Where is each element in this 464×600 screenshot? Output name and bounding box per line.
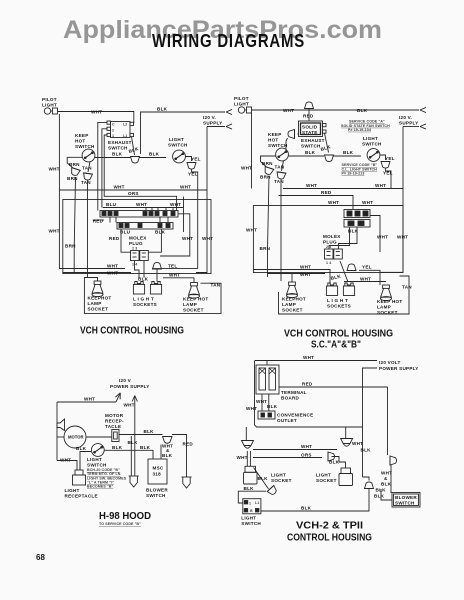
svg-text:HOT: HOT <box>268 138 278 143</box>
wire WHT double left <box>253 270 330 284</box>
svg-text:TERMINAL: TERMINAL <box>281 390 307 395</box>
svg-text:WHT: WHT <box>352 441 363 446</box>
svg-text:LIGHT: LIGHT <box>316 473 331 478</box>
svg-text:BLK: BLK <box>76 446 87 451</box>
svg-text:1: 1 <box>249 502 251 506</box>
svg-text:TAN: TAN <box>275 165 285 170</box>
note text block <box>87 468 127 489</box>
svg-text:WHT: WHT <box>202 236 213 241</box>
svg-text:POWER SUPPLY: POWER SUPPLY <box>110 384 150 389</box>
wire cup to socket2 <box>332 457 346 469</box>
svg-text:HOT: HOT <box>75 139 85 144</box>
svg-text:RED: RED <box>302 382 313 387</box>
wire keephot to cup <box>289 155 325 157</box>
svg-text:TEL: TEL <box>168 263 177 268</box>
horn connector left <box>57 419 65 431</box>
svg-text:BLK: BLK <box>305 150 316 155</box>
svg-text:MOTOR: MOTOR <box>105 413 124 418</box>
svg-text:SUPPLY: SUPPLY <box>399 121 418 126</box>
svg-text:BRN: BRN <box>67 176 78 181</box>
wire BLK cup to switch <box>238 491 266 503</box>
terminal block TB3 <box>344 210 370 228</box>
wire cup down to WHT wire <box>386 169 392 189</box>
svg-text:OUTLET: OUTLET <box>277 418 297 423</box>
svg-text:BLK: BLK <box>381 482 392 487</box>
exhaust switch S2 <box>107 121 134 138</box>
pilot light PL2 <box>238 107 251 113</box>
wire twisted pair to left blower socket <box>128 436 139 476</box>
svg-text:YEL: YEL <box>385 156 395 161</box>
wire left vertical to lamp bus <box>255 361 363 427</box>
wire cup to light switch <box>140 157 167 159</box>
wire BRN vertical <box>74 177 75 272</box>
wire bar1 right drop <box>160 214 190 256</box>
svg-text:WHT: WHT <box>114 185 125 190</box>
terminal strip TB2 <box>117 223 173 230</box>
svg-text:MSC: MSC <box>153 466 164 471</box>
svg-text:WHT: WHT <box>375 183 386 188</box>
svg-text:BLU: BLU <box>120 230 131 235</box>
svg-text:PLUG: PLUG <box>323 240 337 245</box>
svg-text:WHT: WHT <box>306 183 317 188</box>
wire socket right feed <box>193 278 195 283</box>
wire supply arrow right <box>134 397 136 437</box>
wire solid state to cup below <box>325 133 329 152</box>
enclosure bottom TR <box>279 276 410 314</box>
svg-text:WHT: WHT <box>237 455 248 460</box>
wire WHT double left <box>63 268 125 270</box>
svg-text:BLK: BLK <box>162 453 173 458</box>
svg-text:LIGHT: LIGHT <box>65 488 80 493</box>
wire molex to block <box>329 227 350 249</box>
svg-text:PILOT: PILOT <box>42 97 57 102</box>
svg-text:TO SERVICE CODE "B": TO SERVICE CODE "B" <box>99 522 141 526</box>
wire board top to WHT <box>266 361 268 366</box>
wire molex to socket B diag BLK <box>340 261 348 282</box>
svg-text:BLK: BLK <box>357 108 368 113</box>
wire cup to light switch <box>334 155 362 157</box>
box control housing mid <box>253 206 403 273</box>
svg-text:SWITCH: SWITCH <box>241 521 261 526</box>
wire light switch right <box>186 157 192 162</box>
svg-text:S.C."A"&"B": S.C."A"&"B" <box>311 339 361 351</box>
light switch S6 <box>91 444 104 457</box>
solid state exhaust switch U1 <box>299 121 327 137</box>
svg-text:KEEPHOT: KEEPHOT <box>88 296 112 301</box>
svg-text:&: & <box>384 476 388 481</box>
wire RED down to solid state <box>308 108 310 121</box>
connector cup J1 <box>131 157 140 164</box>
svg-text:BLOWER: BLOWER <box>146 488 168 493</box>
svg-text:KEEP HOT: KEEP HOT <box>377 299 402 304</box>
wire BRN vertical <box>268 176 270 277</box>
svg-text:P# 19-19-213: P# 19-19-213 <box>342 171 365 175</box>
svg-text:BLK: BLK <box>244 486 255 491</box>
light socket right <box>339 468 353 486</box>
convenience outlet CO1 <box>258 411 275 419</box>
wire WHT top <box>255 360 378 362</box>
svg-text:WHT: WHT <box>170 202 181 207</box>
light socket A <box>326 283 337 296</box>
svg-text:CONVENIENCE: CONVENIENCE <box>277 413 313 418</box>
svg-text:WHT: WHT <box>377 235 388 240</box>
svg-text:LIGHT: LIGHT <box>169 137 184 142</box>
svg-text:KEEP HOT: KEEP HOT <box>183 297 208 302</box>
svg-text:BLK: BLK <box>301 506 312 511</box>
connector cup J9 <box>163 437 173 444</box>
wire switch right BLK to MSC <box>105 450 154 459</box>
svg-text:WHT: WHT <box>397 235 408 240</box>
svg-text:ORS: ORS <box>301 452 312 457</box>
svg-text:SOCKETS: SOCKETS <box>133 302 157 307</box>
svg-text:WHT: WHT <box>182 236 193 241</box>
wire TAN vertical to socket <box>87 181 89 278</box>
svg-text:SWITCH: SWITCH <box>87 463 107 468</box>
wire L1 to cup <box>132 137 135 155</box>
svg-text:SWITCH: SWITCH <box>301 144 321 149</box>
svg-text:RED: RED <box>93 219 104 224</box>
blower socket right <box>181 477 191 488</box>
terminal strip TB1 <box>100 211 178 218</box>
svg-text:L I G H T: L I G H T <box>133 297 154 302</box>
svg-text:WHT: WHT <box>301 444 312 449</box>
svg-text:ORS: ORS <box>128 191 139 196</box>
svg-text:BLK: BLK <box>329 460 340 465</box>
svg-text:LAMP: LAMP <box>282 302 296 307</box>
wire wht to receptacle <box>57 460 77 463</box>
terminal board TB4 <box>256 365 279 394</box>
svg-text:TACLE: TACLE <box>105 424 121 429</box>
wire supply lower arrow <box>207 126 225 128</box>
svg-text:BLK: BLK <box>140 445 151 450</box>
connector cup J8 <box>347 264 356 271</box>
svg-text:WHT: WHT <box>49 167 60 172</box>
svg-text:VCH-2 & TPII: VCH-2 & TPII <box>296 520 363 532</box>
wire molex leads down <box>135 261 140 278</box>
wire WHT bottom <box>344 281 386 283</box>
enclosure bottom TL <box>84 283 221 313</box>
svg-text:SOCKET: SOCKET <box>183 308 204 313</box>
svg-text:WHT: WHT <box>91 110 102 115</box>
wire socket1 diagonal to cup <box>254 468 269 489</box>
svg-text:WHT: WHT <box>124 403 135 408</box>
wire lamp1 pair down to socket <box>246 451 248 466</box>
svg-text:BLK: BLK <box>112 152 123 157</box>
svg-text:LIGHT: LIGHT <box>234 102 249 107</box>
wire TAN vertical to socket <box>280 180 282 282</box>
svg-text:RED: RED <box>109 236 120 241</box>
wire C down <box>98 123 107 211</box>
svg-text:TAN: TAN <box>81 180 91 185</box>
wire RED mid <box>279 196 354 210</box>
svg-text:I20 VOLT: I20 VOLT <box>379 360 401 365</box>
svg-text:L1: L1 <box>123 134 127 138</box>
svg-text:MOLEX: MOLEX <box>129 236 147 241</box>
svg-text:WHT: WHT <box>360 276 371 281</box>
wire keephot TAN contact <box>81 162 92 186</box>
svg-text:BLK: BLK <box>258 476 269 481</box>
svg-text:MOTOR: MOTOR <box>68 435 84 440</box>
blower switch box S8 <box>392 493 420 508</box>
svg-text:BLK: BLK <box>343 150 354 155</box>
svg-text:SOCKET: SOCKET <box>88 307 109 312</box>
light switch S5 <box>367 149 380 162</box>
wire left vertical <box>56 402 58 461</box>
svg-text:BLK: BLK <box>138 277 149 282</box>
svg-text:RECEP-: RECEP- <box>105 419 124 424</box>
svg-text:BRN: BRN <box>260 175 271 180</box>
wire keephot top to cup <box>286 138 288 149</box>
svg-text:LIGHT: LIGHT <box>363 136 378 141</box>
wire supply arrow left <box>116 394 120 403</box>
wire WHT BLK top <box>252 109 420 111</box>
wire 1 down then ORS <box>104 135 176 211</box>
svg-text:WHT: WHT <box>60 458 71 463</box>
molex plug P2 <box>325 249 343 265</box>
connector cup J6 <box>325 155 334 162</box>
wire supply lower arrow <box>403 126 419 128</box>
wire supply vertical right <box>380 127 403 273</box>
wire BLU WHT WHT <box>103 207 183 209</box>
light switch S3 <box>173 150 186 163</box>
keephot lamp socket left <box>287 282 298 298</box>
svg-text:B: B <box>250 509 253 513</box>
wire molex to terminal strips <box>121 229 131 252</box>
svg-text:RECEPTACLE: RECEPTACLE <box>65 494 98 499</box>
wire RED down right <box>387 387 389 455</box>
MSC 318 box <box>148 459 167 484</box>
connector cup J10 ors <box>328 452 335 461</box>
light socket B <box>343 283 354 296</box>
wire cup to RED corner down <box>172 435 187 478</box>
wire pilot down left side WHT <box>59 114 62 269</box>
wire cup to box <box>298 133 299 135</box>
svg-text:BLOWER: BLOWER <box>395 495 417 500</box>
wire blower left lead <box>381 489 392 500</box>
svg-text:BLK: BLK <box>144 429 155 434</box>
svg-text:WHT: WHT <box>246 406 257 411</box>
svg-text:BLK: BLK <box>149 152 160 157</box>
svg-text:WHT: WHT <box>107 271 118 276</box>
svg-text:SWITCH: SWITCH <box>168 143 188 148</box>
svg-text:WHT: WHT <box>328 200 339 205</box>
svg-text:BLU: BLU <box>106 202 117 207</box>
svg-text:PILOT: PILOT <box>234 96 249 101</box>
svg-text:1: 1 <box>112 134 114 138</box>
svg-text:WHT: WHT <box>136 202 147 207</box>
svg-text:SUPPLY: SUPPLY <box>203 121 222 126</box>
connector cup J5 left of solid state <box>288 130 295 139</box>
svg-text:YEL: YEL <box>191 157 201 162</box>
wire keephot BRN contact <box>67 157 82 181</box>
svg-text:68: 68 <box>36 553 45 562</box>
svg-text:BRN: BRN <box>65 244 76 249</box>
svg-text:BLK: BLK <box>155 230 166 235</box>
svg-text:WHT: WHT <box>362 200 373 205</box>
light socket A <box>133 282 144 295</box>
blower socket left <box>129 476 139 487</box>
wire supply vertical <box>196 127 207 273</box>
svg-text:2 3: 2 3 <box>132 247 137 251</box>
svg-text:L2: L2 <box>123 123 127 127</box>
svg-text:WHT: WHT <box>303 355 314 360</box>
svg-text:L1: L1 <box>255 501 259 505</box>
svg-text:SWITCH: SWITCH <box>395 501 415 506</box>
svg-text:BLK: BLK <box>157 107 168 112</box>
svg-text:BOARD: BOARD <box>281 396 300 401</box>
svg-text:SWITCH: SWITCH <box>146 493 166 498</box>
wire 2 down then BLU <box>102 129 107 208</box>
wire switch left BLK <box>80 452 91 471</box>
wire receptacle to cup BLK <box>119 434 163 436</box>
svg-text:KEEP: KEEP <box>268 132 282 137</box>
wire cup to blower <box>390 465 392 493</box>
svg-text:BLK: BLK <box>361 448 372 453</box>
svg-text:BLK: BLK <box>128 440 139 445</box>
svg-text:EXHAUST: EXHAUST <box>108 140 132 145</box>
wire WHT top to exhaust L2 <box>58 112 134 124</box>
svg-text:RED: RED <box>321 190 332 195</box>
molex plug P1 <box>131 251 149 267</box>
wire inner box right edge <box>183 197 185 233</box>
light socket left <box>244 466 258 484</box>
svg-text:TAN: TAN <box>211 283 221 288</box>
wire WHT to lamp2 <box>253 449 337 451</box>
light switch box S7 <box>243 499 261 514</box>
connector cup J11 bottom right <box>365 482 374 489</box>
svg-text:SWITCH: SWITCH <box>268 143 288 148</box>
pilot light PL1 <box>44 108 57 114</box>
keep hot switch S4 <box>276 148 289 161</box>
svg-text:SOLID: SOLID <box>302 125 318 130</box>
wire to cup from supply vertical <box>363 477 370 481</box>
wire YEL right <box>152 268 198 270</box>
svg-text:318: 318 <box>153 472 162 477</box>
wire YEL right <box>359 270 380 285</box>
svg-text:SOCKET: SOCKET <box>282 308 303 313</box>
wire keephot feed <box>291 274 293 283</box>
svg-text:SOCKETS: SOCKETS <box>327 304 351 309</box>
connector cup J12 right <box>390 456 397 465</box>
wire board legs down <box>261 394 263 411</box>
svg-text:LAMP: LAMP <box>88 301 102 306</box>
wire lamp1 stem <box>245 427 247 441</box>
svg-text:LIGHT: LIGHT <box>42 103 57 108</box>
wire WHT horizontal mid <box>59 189 207 191</box>
svg-text:WHT: WHT <box>107 264 118 269</box>
svg-text:SOCKET: SOCKET <box>377 310 398 315</box>
svg-text:SWITCH: SWITCH <box>108 146 128 151</box>
svg-text:CONTROL HOUSING: CONTROL HOUSING <box>287 532 372 544</box>
svg-text:WHT: WHT <box>246 228 257 233</box>
svg-text:BLK: BLK <box>112 445 123 450</box>
motor M1 <box>64 426 86 448</box>
svg-text:BRN: BRN <box>262 161 273 166</box>
wire lamp2 stem <box>345 427 347 439</box>
svg-text:RED: RED <box>303 114 314 119</box>
connector cup J4 top red <box>305 102 314 109</box>
motor receptacle box <box>112 430 119 442</box>
svg-text:LIGHT: LIGHT <box>87 457 102 462</box>
svg-text:WHT: WHT <box>300 272 311 277</box>
svg-text:TERM MTG. OF LN: TERM MTG. OF LN <box>87 472 121 476</box>
svg-text:L I G H T: L I G H T <box>327 298 348 303</box>
wire light switch right <box>380 155 386 160</box>
svg-text:BECOMES "B": BECOMES "B" <box>87 485 113 489</box>
wire RED stub <box>93 219 104 221</box>
wire BLK long bottom <box>261 489 369 511</box>
svg-text:STATE: STATE <box>302 130 318 135</box>
svg-text:2: 2 <box>112 129 114 133</box>
svg-text:SOCKET: SOCKET <box>271 478 292 483</box>
box control housing mid <box>63 200 211 274</box>
svg-text:C: C <box>112 123 115 127</box>
svg-text:I20 V: I20 V <box>119 378 132 383</box>
svg-text:RED: RED <box>183 442 194 447</box>
wire WHT into terminal block <box>320 205 403 207</box>
wire WHT horizontal mid <box>283 188 403 190</box>
svg-text:LAMP: LAMP <box>377 305 391 310</box>
svg-text:WHT: WHT <box>241 166 252 171</box>
svg-text:TAN: TAN <box>82 166 92 171</box>
svg-text:BRN: BRN <box>260 246 271 251</box>
svg-text:EXHAUST: EXHAUST <box>301 138 325 143</box>
wire motor to receptacle <box>86 436 112 438</box>
svg-text:WHT: WHT <box>180 185 191 190</box>
svg-text:MOLEX: MOLEX <box>323 234 341 239</box>
svg-text:LIGHT: LIGHT <box>241 516 256 521</box>
svg-text:WHT: WHT <box>300 265 311 270</box>
connector cup J13 <box>267 485 278 496</box>
wire keephot BRN contact <box>260 156 276 180</box>
ceiling lamp L2 <box>341 439 353 447</box>
keep hot switch S1 <box>82 149 95 162</box>
connector cup J2 YEL <box>187 163 196 170</box>
svg-text:SWITCH: SWITCH <box>75 144 95 149</box>
svg-text:WHT: WHT <box>49 229 60 234</box>
wire cup to socket B <box>156 269 158 282</box>
svg-text:WHT: WHT <box>283 108 294 113</box>
svg-text:BLK: BLK <box>374 494 385 499</box>
svg-text:KEEP: KEEP <box>75 133 89 138</box>
wire supply second conductor <box>363 368 378 477</box>
svg-text:TAN: TAN <box>274 179 284 184</box>
wire pilot down left WHT <box>251 113 253 189</box>
svg-text:I20 V.: I20 V. <box>203 115 216 120</box>
svg-text:POWER SUPPLY: POWER SUPPLY <box>379 366 419 371</box>
light receptacle <box>73 461 86 485</box>
ceiling lamp L1 <box>242 441 254 449</box>
keephot lamp socket left <box>92 281 103 297</box>
svg-text:WHT: WHT <box>381 471 392 476</box>
wire socket left feed <box>84 278 97 291</box>
connector cup J3 <box>153 262 162 269</box>
svg-text:LIGHT: LIGHT <box>271 473 286 478</box>
keep hot lamp socket right <box>189 283 200 299</box>
svg-text:WHT: WHT <box>169 273 180 278</box>
svg-text:KEEPHOT: KEEPHOT <box>282 297 306 302</box>
wire keephot to cup BLK <box>95 157 131 159</box>
svg-text:VCH CONTROL HOUSING: VCH CONTROL HOUSING <box>80 325 184 337</box>
connector cup J7 YEL <box>381 162 390 169</box>
svg-text:I20 V.: I20 V. <box>399 115 412 120</box>
svg-text:YEL: YEL <box>362 265 372 270</box>
svg-text:LAMP: LAMP <box>183 302 197 307</box>
svg-text:SWITCH: SWITCH <box>362 142 382 147</box>
svg-text:WIRING DIAGRAMS: WIRING DIAGRAMS <box>152 30 305 51</box>
svg-text:BRN: BRN <box>69 162 80 167</box>
wire RED from board <box>279 386 388 388</box>
